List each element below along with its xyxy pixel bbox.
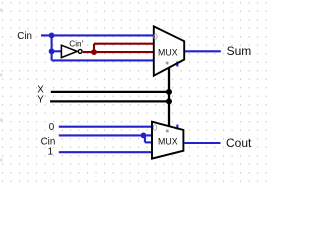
wire: Cout output (blue)	[184, 142, 220, 144]
svg-text:Sum: Sum	[227, 44, 252, 58]
svg-text:Y: Y	[37, 94, 44, 105]
junction on bottom Cin wire	[141, 133, 147, 139]
wire: step to bottom MUX input 2 (blue)	[145, 141, 153, 143]
svg-text:Cin': Cin'	[69, 40, 83, 49]
wire: lower branch to top MUX input 3 (blue)	[52, 59, 155, 61]
wire: Cin vertical branch (blue)	[51, 35, 53, 60]
wire: Y to select line (black)	[50, 100, 169, 102]
junction on Cin' wire	[91, 49, 97, 55]
enable stub (blue tick, bottom mux)	[176, 125, 178, 130]
wire: 1 to bottom MUX input 3 (blue)	[59, 151, 153, 153]
grid dots	[0, 0, 271, 186]
wire (mux edge over stub)	[175, 62, 180, 65]
wire: Sum output (blue)	[185, 50, 221, 52]
enable stub (blue tick, top mux)	[176, 62, 178, 67]
svg-text:0: 0	[153, 31, 158, 41]
wire: branch to inverter input (blue)	[52, 50, 63, 52]
wire: step vertical branch (blue)	[144, 135, 146, 142]
wire: inverter output to top MUX input 2 (dark red)	[83, 51, 155, 53]
svg-text:0: 0	[49, 122, 55, 133]
svg-text:MUX: MUX	[158, 137, 178, 147]
edge artifact marks	[0, 9, 3, 162]
wire: X to select line (black)	[51, 91, 169, 93]
wire: red branch to top MUX input 1	[94, 43, 155, 45]
wire (mux edge over stub)	[175, 128, 180, 129]
wire: select vertical line (black)	[168, 68, 170, 127]
inverter U1 (NOT gate)	[61, 45, 82, 57]
svg-text:1: 1	[48, 147, 53, 158]
svg-text:Cin: Cin	[17, 31, 32, 42]
junction Y-select	[166, 98, 172, 104]
svg-text:MUX: MUX	[158, 48, 178, 58]
junction at inverter branch	[49, 48, 55, 54]
junction X-select	[166, 89, 172, 95]
wire: Cin to bottom MUX input 1 (blue)	[59, 134, 153, 136]
wire: 0 to bottom MUX input 0 (blue)	[59, 126, 153, 128]
mux U3 (bottom, Cout)	[152, 122, 183, 159]
wire: red vertical branch	[93, 44, 95, 52]
junction on Cin wire	[49, 33, 55, 39]
mux U2 (top, Sum)	[153, 26, 184, 75]
svg-text:0: 0	[153, 123, 158, 133]
wire: Cin to top MUX input 0 (blue)	[41, 34, 155, 36]
svg-text:Cout: Cout	[226, 136, 252, 150]
